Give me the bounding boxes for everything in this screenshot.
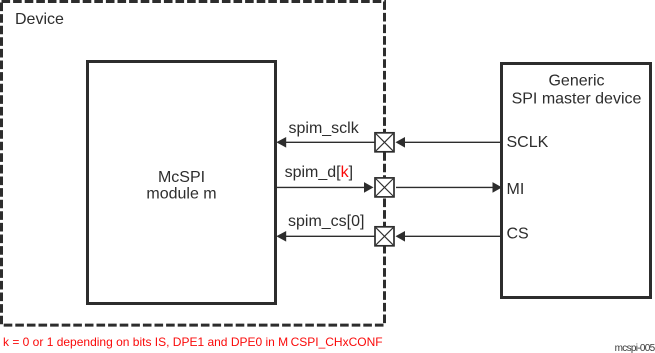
svg-text:Device: Device xyxy=(15,11,64,28)
svg-text:CS: CS xyxy=(507,226,529,243)
svg-text:SCLK: SCLK xyxy=(507,134,549,151)
svg-text:spim_sclk: spim_sclk xyxy=(289,120,360,137)
svg-text:module m: module m xyxy=(146,186,216,203)
svg-text:Generic: Generic xyxy=(548,73,604,90)
svg-text:McSPI: McSPI xyxy=(158,169,205,186)
svg-text:spim_cs[0]: spim_cs[0] xyxy=(288,213,364,230)
svg-text:spim_d[k]: spim_d[k] xyxy=(285,164,353,181)
svg-text:mcspi-005: mcspi-005 xyxy=(615,343,655,353)
svg-text:k = 0 or 1 depending on bits I: k = 0 or 1 depending on bits IS, DPE1 an… xyxy=(3,335,383,349)
svg-text:MI: MI xyxy=(507,181,525,198)
svg-text:SPI master device: SPI master device xyxy=(512,90,642,107)
